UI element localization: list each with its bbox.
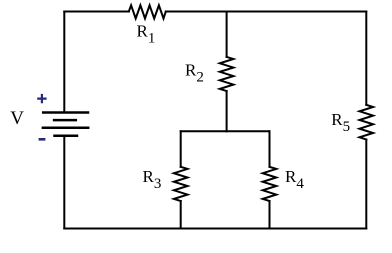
wire R4 branch upper [269,131,271,167]
wire left rail upper [63,12,65,113]
wire R3 branch lower [180,201,182,229]
wire left rail lower [63,136,65,229]
wire R2 branch upper [226,12,228,57]
resistor R4 [263,167,277,201]
plus terminal label [37,94,46,103]
svg-text:R3: R3 [143,167,162,192]
wire right rail lower [365,140,367,229]
wire R3 branch upper [180,131,182,167]
wire top rail left segment [64,11,129,13]
battery V plate short second [54,119,76,122]
resistor R5 [360,105,374,140]
svg-text:V: V [10,108,24,129]
resistor R2 [220,57,234,91]
battery V plate long third [43,127,88,130]
wire top rail right segment [166,11,366,13]
svg-text:R5: R5 [331,110,350,135]
battery V plate negative short bottom [55,135,78,138]
wire R2 branch lower [226,91,228,131]
resistor R3 [174,167,188,201]
wire parallel top rail [181,130,270,132]
svg-text:R4: R4 [285,167,304,192]
wire right rail upper [365,12,367,105]
resistor R1 [129,5,166,18]
minus terminal label [39,138,46,141]
svg-text:R2: R2 [185,61,204,86]
wire bottom rail [64,228,366,230]
battery V plate positive long top [43,111,88,114]
wire R4 branch lower [269,201,271,229]
svg-text:R1: R1 [137,21,156,46]
